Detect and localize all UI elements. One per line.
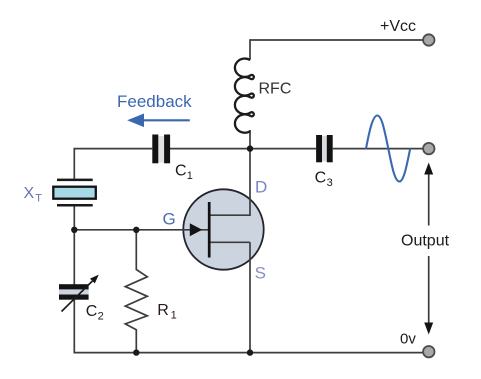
svg-text:D: D: [255, 177, 267, 196]
svg-text:2: 2: [98, 310, 104, 322]
svg-text:C: C: [175, 162, 187, 179]
svg-text:R: R: [157, 302, 169, 319]
svg-text:X: X: [24, 185, 35, 202]
svg-text:3: 3: [327, 177, 333, 189]
svg-text:Feedback: Feedback: [117, 92, 192, 111]
svg-text:C: C: [315, 170, 327, 187]
svg-text:1: 1: [171, 309, 177, 321]
svg-text:1: 1: [187, 170, 193, 182]
svg-text:Output: Output: [401, 232, 450, 249]
svg-text:C: C: [86, 303, 98, 320]
svg-text:G: G: [163, 209, 176, 228]
svg-text:T: T: [35, 192, 42, 204]
svg-text:S: S: [255, 263, 266, 282]
svg-text:+Vcc: +Vcc: [380, 18, 416, 35]
svg-text:0v: 0v: [400, 330, 416, 347]
svg-text:RFC: RFC: [259, 80, 292, 97]
